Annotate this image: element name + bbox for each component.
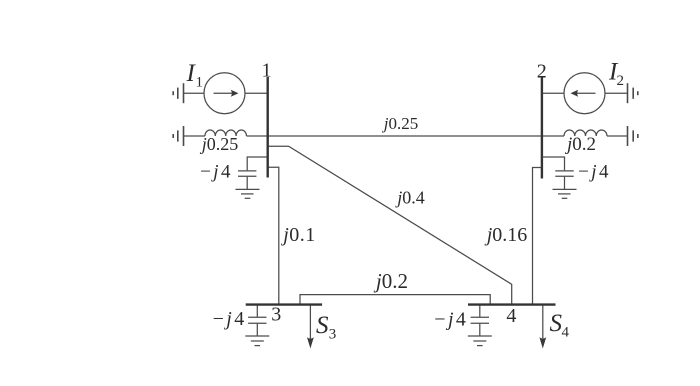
- svg-text:3: 3: [329, 327, 337, 343]
- svg-text:j0.25: j0.25: [200, 134, 239, 154]
- svg-text:−j4: −j4: [578, 162, 611, 183]
- svg-text:j0.2: j0.2: [564, 134, 596, 155]
- svg-text:−j4: −j4: [200, 162, 233, 183]
- svg-text:j0.25: j0.25: [382, 114, 418, 133]
- svg-text:−j4: −j4: [434, 309, 468, 331]
- svg-text:S: S: [316, 312, 329, 339]
- svg-text:j0.4: j0.4: [395, 188, 425, 208]
- svg-text:2: 2: [617, 73, 625, 89]
- svg-text:4: 4: [562, 325, 570, 341]
- svg-text:j0.1: j0.1: [280, 224, 316, 246]
- svg-text:4: 4: [506, 305, 516, 327]
- svg-text:−j4: −j4: [213, 308, 247, 330]
- svg-text:3: 3: [271, 303, 281, 325]
- svg-text:j0.2: j0.2: [373, 269, 408, 293]
- svg-text:j0.16: j0.16: [484, 224, 528, 246]
- svg-text:1: 1: [262, 59, 272, 81]
- svg-text:2: 2: [537, 61, 547, 83]
- svg-text:1: 1: [196, 74, 204, 90]
